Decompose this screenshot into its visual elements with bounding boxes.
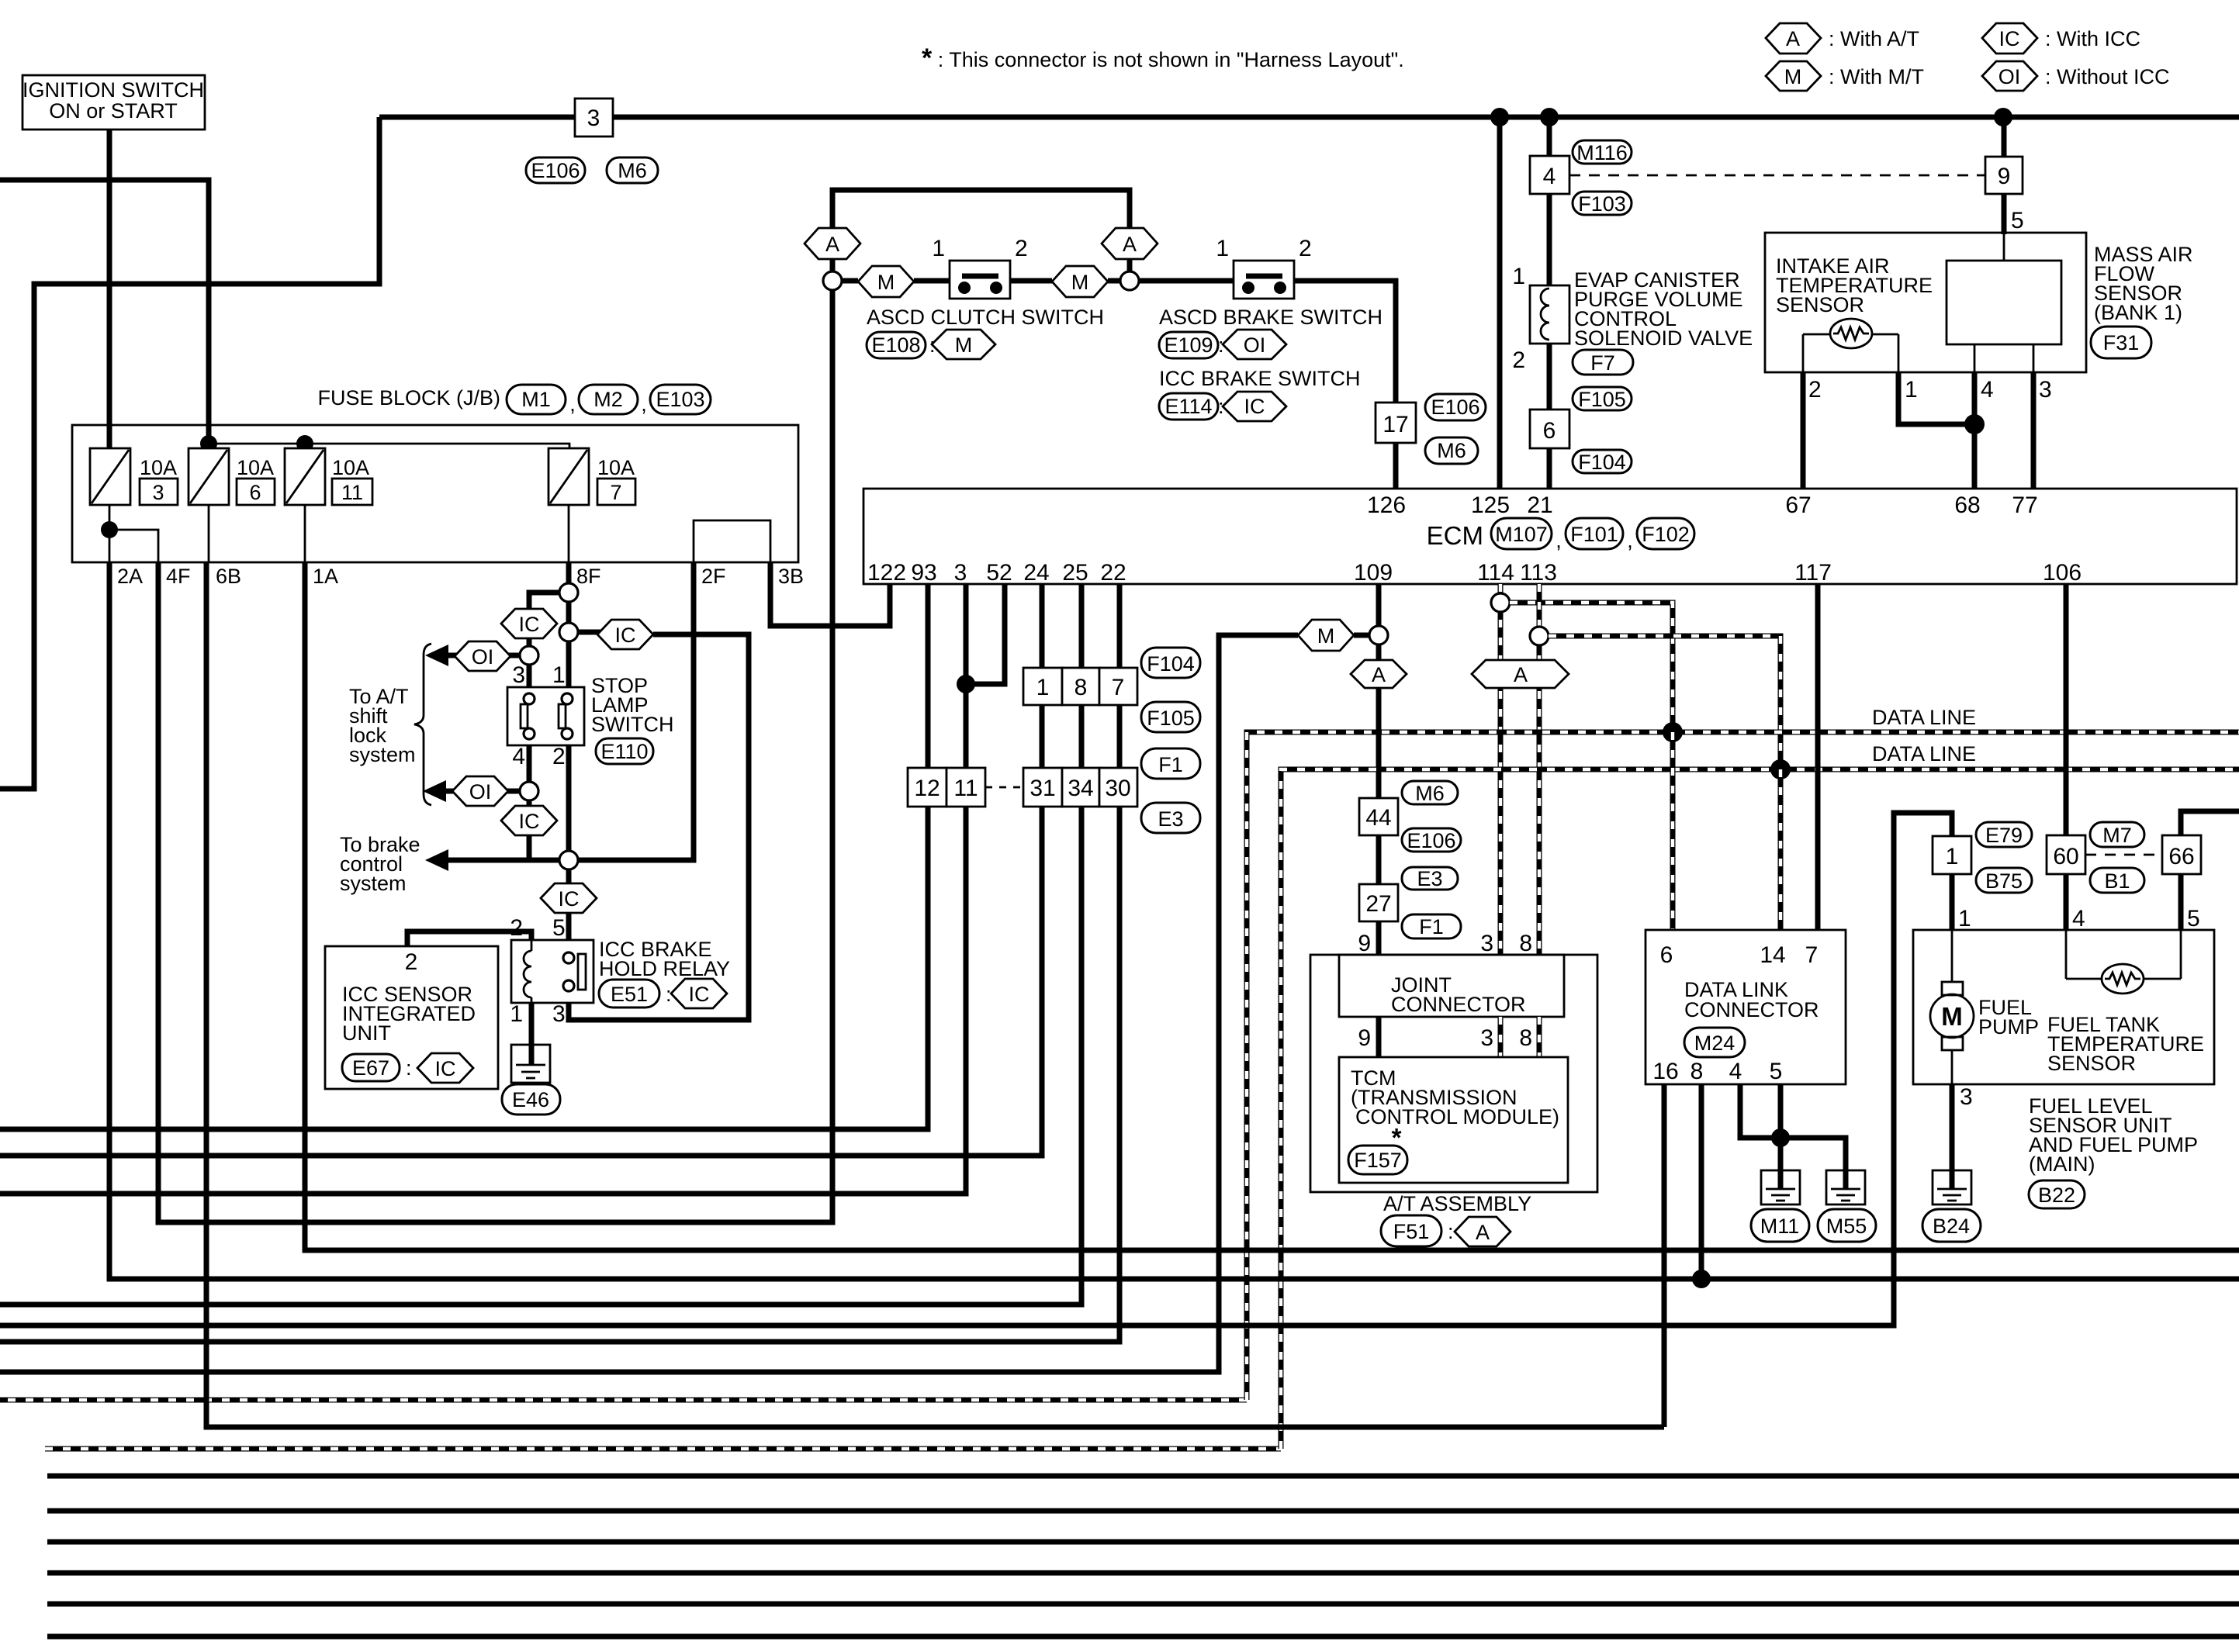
svg-text:IC: IC — [519, 613, 540, 636]
wire JC8 to TCM striped — [1537, 1017, 1542, 1057]
node open circle ASCD right — [1120, 271, 1139, 290]
wire main power corner to left edge — [0, 117, 379, 789]
svg-text:FUSE BLOCK (J/B): FUSE BLOCK (J/B) — [317, 386, 500, 410]
oval E51 — [599, 980, 672, 1007]
svg-text:1: 1 — [1036, 675, 1050, 700]
svg-text:2: 2 — [552, 744, 566, 769]
wire ECM3 to left edge — [0, 584, 966, 1194]
node open circle pin2 — [559, 851, 578, 869]
oval E3 (109) — [1402, 867, 1458, 890]
wire 113 data spur — [1549, 636, 1780, 769]
svg-text:122: 122 — [867, 560, 906, 586]
svg-text:IC: IC — [1244, 395, 1265, 418]
wire circle down through IC — [527, 800, 532, 860]
svg-text:IGNITION SWITCH: IGNITION SWITCH — [22, 78, 204, 102]
hexagon A (109) — [1351, 660, 1407, 688]
label INTAKE AIR TEMPERATURE SENSOR — [1776, 254, 1933, 316]
oval M11 — [1751, 1209, 1809, 1242]
wire 4F branch — [109, 530, 158, 562]
svg-text:4: 4 — [512, 744, 525, 769]
svg-text:67: 67 — [1785, 492, 1811, 518]
wire stop lamp pin4 down — [527, 745, 532, 782]
svg-text:A: A — [1372, 663, 1386, 686]
arrow to A/T shift lock 1 — [425, 645, 520, 666]
legend M hexagon — [1766, 61, 1924, 91]
wire fuse11 to 1A — [304, 505, 306, 562]
svg-text:8: 8 — [1519, 931, 1532, 956]
svg-text:4F: 4F — [166, 565, 191, 588]
svg-text:F101: F101 — [1570, 523, 1618, 546]
wire clutch switch to M hex — [1010, 278, 1052, 284]
svg-text:3: 3 — [152, 481, 164, 504]
svg-text:3: 3 — [1960, 1084, 1973, 1110]
svg-text:3: 3 — [954, 560, 967, 586]
svg-text:SENSOR: SENSOR — [2047, 1052, 2136, 1075]
svg-text:60: 60 — [2053, 844, 2078, 869]
svg-text:93: 93 — [911, 560, 936, 586]
oval F1 (109) — [1402, 914, 1461, 938]
fuse block internal bus — [209, 444, 569, 448]
wire fuse3 to 2A/4F — [109, 505, 111, 562]
bottom bus line 3 — [47, 1540, 2239, 1545]
oval F105 (row) — [1141, 702, 1200, 732]
svg-text:: With ICC: : With ICC — [2045, 27, 2140, 50]
fuel tank temperature sensor thermistor — [2066, 930, 2181, 994]
svg-text:M6: M6 — [618, 159, 647, 182]
ignition switch box — [22, 75, 205, 130]
svg-text:113: 113 — [1520, 560, 1557, 586]
IAT sensor thermistor — [1803, 319, 1898, 372]
wire A/T bypass jumper — [832, 190, 1130, 271]
oval B1 — [2090, 868, 2144, 893]
hexagon OI (E109) — [1223, 330, 1286, 359]
wire 4F to ASCD branch riser — [158, 290, 832, 1222]
svg-text:IC: IC — [519, 810, 540, 833]
svg-text:E3: E3 — [1417, 867, 1442, 890]
wire dashed 4 to 9 — [1569, 175, 1985, 177]
svg-text:CONNECTOR: CONNECTOR — [1684, 998, 1819, 1021]
node open circle 114 — [1491, 593, 1510, 612]
hexagon OI (top) — [455, 641, 510, 671]
wire DL1 to DLC6 striped — [1670, 732, 1676, 930]
oval M55 — [1818, 1209, 1876, 1242]
svg-text:109: 109 — [1354, 560, 1393, 586]
oval E108 — [867, 332, 936, 358]
wire ECM 21 / EVAP chain — [1547, 117, 1552, 489]
svg-text:M107: M107 — [1495, 523, 1548, 546]
hexagon IC (left bottom) — [501, 806, 557, 835]
connector row 12-11 — [908, 768, 985, 807]
connector row 31-34-30 — [1023, 768, 1137, 807]
wire to M55 ground — [1780, 1138, 1846, 1170]
svg-text::: : — [406, 1056, 412, 1080]
svg-text:(BANK 1): (BANK 1) — [2094, 301, 2182, 324]
data link connector box — [1646, 930, 1846, 1084]
hexagon IC (E114) — [1223, 392, 1286, 421]
svg-text:10A: 10A — [332, 456, 369, 479]
svg-text:(MAIN): (MAIN) — [2029, 1153, 2095, 1176]
svg-text:1A: 1A — [313, 565, 338, 588]
oval F7 — [1573, 350, 1633, 375]
svg-text:21: 21 — [1527, 492, 1552, 518]
wire ECM114 striped — [1498, 584, 1504, 955]
svg-text:66: 66 — [2168, 844, 2194, 869]
svg-text:6: 6 — [1543, 418, 1556, 444]
node junction main-21 — [1540, 108, 1559, 126]
connector 3 (E106/M6) — [575, 98, 613, 137]
hexagon M (E108) — [932, 330, 995, 359]
brace shift lock — [414, 644, 431, 805]
svg-text::: : — [1448, 1220, 1454, 1243]
svg-text:A: A — [1476, 1221, 1490, 1244]
node DLC4-5 — [1771, 1128, 1790, 1147]
svg-text:3: 3 — [587, 105, 600, 131]
connector 1 (E79/B75) — [1933, 836, 1971, 874]
wire DATA LINE 2 — [45, 769, 2239, 1449]
oval E67 — [342, 1054, 412, 1081]
wire fuse7 to 8F — [568, 505, 570, 562]
oval M7 — [2090, 822, 2144, 847]
svg-text:30: 30 — [1105, 776, 1130, 801]
wire M hex to clutch switch — [914, 278, 950, 284]
svg-text:5: 5 — [2187, 906, 2200, 931]
wire brake switch to ECM 126 — [1294, 281, 1396, 489]
legend A hexagon — [1766, 23, 1919, 54]
svg-text:2A: 2A — [117, 565, 143, 588]
ICC sensor integrated unit box — [325, 946, 498, 1089]
oval E114 — [1159, 393, 1224, 420]
svg-text:5: 5 — [2011, 208, 2024, 233]
svg-text:,: , — [1556, 529, 1562, 552]
svg-text:E108: E108 — [871, 334, 920, 357]
oval E79 — [1976, 822, 2032, 847]
label FUEL PUMP — [1978, 996, 2039, 1039]
svg-text:2: 2 — [1299, 236, 1312, 261]
wire DLC4 elbow — [1740, 1084, 1780, 1138]
bottom bus line 6 — [47, 1634, 2239, 1640]
svg-text:IC: IC — [1999, 27, 2020, 50]
node data line 2 junction — [1770, 759, 1791, 779]
svg-text:9: 9 — [1998, 164, 2011, 189]
wire branch to shift lock left — [529, 593, 559, 646]
oval B22 — [2029, 1180, 2085, 1208]
svg-text:F104: F104 — [1578, 451, 1626, 474]
svg-text:1: 1 — [1946, 844, 1959, 869]
svg-text:SWITCH: SWITCH — [591, 713, 673, 736]
svg-text:F1: F1 — [1419, 915, 1444, 938]
wire relay pin1 to ground — [529, 1003, 535, 1045]
svg-text:F157: F157 — [1354, 1149, 1402, 1172]
svg-text:M: M — [1317, 624, 1335, 648]
oval F1 (row) — [1141, 748, 1200, 779]
oval E46 — [502, 1084, 560, 1115]
node DLC8-2A — [1692, 1270, 1711, 1288]
wire fuel pin3 to ground — [1950, 1084, 1955, 1170]
label STOP LAMP SWITCH — [591, 674, 673, 736]
svg-text:4: 4 — [2072, 906, 2085, 931]
fuel level sensor unit box — [1913, 930, 2214, 1084]
svg-text:E110: E110 — [600, 740, 648, 763]
svg-text:A: A — [825, 233, 839, 256]
connector notch 2F/3B — [694, 520, 770, 562]
svg-text:126: 126 — [1367, 492, 1406, 518]
ground B24 — [1933, 1170, 1971, 1204]
svg-text:52: 52 — [986, 560, 1012, 586]
bottom bus line 1 — [47, 1474, 2239, 1479]
svg-text:12: 12 — [914, 776, 940, 801]
svg-text:E109: E109 — [1164, 334, 1213, 357]
svg-text:PUMP: PUMP — [1978, 1015, 2039, 1039]
svg-text:IC: IC — [615, 624, 636, 647]
svg-text:125: 125 — [1471, 492, 1510, 518]
svg-text:CONNECTOR: CONNECTOR — [1391, 993, 1526, 1016]
wire MAF pin4 stub — [1974, 344, 1976, 372]
svg-text:7: 7 — [610, 481, 621, 504]
wire ECM93 to left edge — [0, 584, 928, 1129]
oval F104 (row) — [1141, 648, 1200, 678]
fuse block box — [72, 425, 798, 562]
svg-text:10A: 10A — [597, 456, 635, 479]
svg-text:2: 2 — [405, 949, 418, 975]
svg-text:M: M — [1784, 65, 1802, 88]
svg-text:M2: M2 — [593, 388, 623, 411]
wire ECM113 striped — [1537, 584, 1542, 955]
svg-text:system: system — [340, 872, 407, 895]
svg-text:25: 25 — [1062, 560, 1088, 586]
wire ECM25 to left edge — [0, 584, 1081, 1305]
svg-text:24: 24 — [1023, 560, 1049, 586]
svg-text:16: 16 — [1652, 1059, 1678, 1084]
oval M6 — [607, 157, 658, 183]
wire M hex to AT route — [0, 635, 1298, 1372]
node open circle 8F-b — [559, 623, 578, 641]
MAF sensor box — [1765, 233, 2086, 372]
svg-text:ECM: ECM — [1427, 521, 1483, 550]
svg-text:1: 1 — [510, 1001, 523, 1027]
wire MAF4 to ECM68 — [1972, 372, 1978, 489]
oval F51 — [1381, 1215, 1454, 1246]
oval E3 (row) — [1141, 803, 1200, 833]
node junction main-MAF — [1994, 108, 2012, 126]
oval B75 — [1976, 868, 2032, 893]
oval E110 — [596, 738, 653, 764]
svg-text:ON or START: ON or START — [49, 99, 178, 123]
svg-text:M24: M24 — [1694, 1032, 1735, 1055]
svg-text:8: 8 — [1519, 1025, 1532, 1051]
hexagon A (clutch bypass left) — [805, 228, 860, 259]
svg-text:F31: F31 — [2103, 331, 2140, 354]
legend IC hexagon — [1982, 23, 2140, 54]
fuse block label — [317, 385, 711, 416]
ground M55 — [1826, 1170, 1865, 1204]
fuel pump motor — [1930, 930, 1974, 1084]
svg-text:68: 68 — [1954, 492, 1980, 518]
node open circle 109 — [1369, 626, 1388, 645]
wire 9 to MAF — [2002, 117, 2007, 157]
wire ECM109 down — [1376, 584, 1382, 955]
svg-text:11: 11 — [953, 776, 978, 801]
bottom bus line 4 — [47, 1571, 2239, 1576]
riser fuse11 — [304, 444, 306, 448]
svg-text:2F: 2F — [701, 565, 726, 588]
svg-text:8F: 8F — [576, 565, 601, 588]
svg-text:OI: OI — [472, 645, 494, 669]
oval M6 (109) — [1402, 781, 1458, 805]
wire IC right loop — [569, 634, 749, 1020]
svg-text:44: 44 — [1365, 805, 1391, 831]
svg-text:DATA LINE: DATA LINE — [1872, 742, 1976, 766]
oval F103 — [1573, 192, 1632, 216]
hexagon IC (left top) — [501, 609, 557, 638]
svg-text:ICC BRAKE SWITCH: ICC BRAKE SWITCH — [1159, 367, 1361, 390]
MAF inner element — [1947, 261, 2061, 344]
svg-text:4: 4 — [1543, 164, 1556, 189]
svg-text:system: system — [349, 743, 416, 766]
hexagon M (clutch in) — [858, 266, 914, 297]
hexagon OI (bottom) — [452, 776, 508, 806]
node 52-3 — [957, 675, 975, 693]
svg-text:7: 7 — [1112, 675, 1125, 700]
hexagon IC (relay) — [541, 883, 597, 913]
oval F31 — [2091, 327, 2151, 358]
oval F105 — [1573, 387, 1632, 411]
node junction main-125 — [1490, 108, 1509, 126]
ASCD clutch switch — [932, 236, 1027, 299]
svg-text:ASCD CLUTCH SWITCH: ASCD CLUTCH SWITCH — [867, 306, 1104, 329]
hexagon A (F51) — [1455, 1217, 1511, 1246]
svg-text:F51: F51 — [1393, 1220, 1430, 1243]
label ICC BRAKE HOLD RELAY — [599, 938, 730, 980]
svg-text:SENSOR: SENSOR — [1776, 293, 1864, 316]
svg-text:22: 22 — [1100, 560, 1126, 586]
svg-text:4: 4 — [1729, 1059, 1742, 1084]
wire dashed 60 to 66 — [2085, 854, 2162, 856]
connector 6 (F105/F104) — [1530, 410, 1569, 448]
svg-text:F7: F7 — [1590, 351, 1615, 375]
node open circle 113 — [1530, 627, 1549, 645]
svg-text:A: A — [1123, 233, 1137, 256]
wire ECM 125 — [1497, 117, 1503, 489]
svg-text:5: 5 — [552, 915, 566, 941]
node fuse3-4F — [101, 521, 118, 538]
svg-text:2: 2 — [1015, 236, 1028, 261]
svg-text:M116: M116 — [1576, 141, 1628, 164]
svg-text:E46: E46 — [512, 1088, 549, 1111]
svg-text:DATA LINE: DATA LINE — [1872, 706, 1976, 729]
svg-text:27: 27 — [1365, 891, 1391, 917]
svg-text:6: 6 — [1660, 942, 1673, 968]
svg-text:17: 17 — [1383, 412, 1408, 437]
svg-text:F105: F105 — [1578, 388, 1626, 411]
wire dashed 11-31 — [985, 786, 1023, 789]
wire main power line — [379, 115, 2239, 120]
wire 2A bus — [109, 562, 2239, 1279]
hexagon IC (E51) — [671, 979, 727, 1008]
svg-text:3: 3 — [512, 662, 525, 688]
svg-text:3: 3 — [552, 1001, 566, 1027]
oval E106 (109) — [1402, 828, 1461, 852]
bottom bus line 2 — [47, 1509, 2239, 1514]
ICC brake hold relay — [510, 915, 593, 1027]
wire DATA LINE 1 — [0, 732, 2239, 1400]
svg-text:HOLD RELAY: HOLD RELAY — [599, 957, 730, 980]
svg-text:,: , — [569, 392, 576, 416]
connector 44 — [1359, 798, 1398, 835]
svg-text:1: 1 — [1958, 906, 1971, 931]
svg-text:77: 77 — [2012, 492, 2037, 518]
connector 4 (M116/F103) — [1530, 156, 1569, 194]
svg-text:B1: B1 — [2104, 869, 2130, 893]
fuse 11 10A — [285, 448, 372, 505]
oval F104 — [1573, 450, 1632, 474]
svg-text:M: M — [955, 334, 973, 357]
svg-text:E106: E106 — [1407, 829, 1455, 852]
svg-text:34: 34 — [1068, 776, 1093, 801]
svg-text:E3: E3 — [1158, 807, 1183, 831]
wire circle to stop lamp pin3 — [527, 665, 532, 687]
svg-text:OI: OI — [1998, 65, 2021, 88]
svg-text:F103: F103 — [1578, 192, 1626, 216]
svg-text:,: , — [1627, 529, 1633, 552]
label FUEL TANK TEMPERATURE SENSOR — [2047, 1013, 2204, 1075]
hexagon A (113/114 wide) — [1472, 660, 1569, 688]
svg-text:E106: E106 — [1431, 396, 1479, 419]
connector 66 — [2162, 835, 2201, 874]
node data line 1 junction — [1663, 722, 1683, 742]
A/T assembly box — [1310, 955, 1597, 1192]
svg-text:6: 6 — [249, 481, 261, 504]
connector 9 (MAF) — [1985, 157, 2023, 194]
wire 1A bus — [305, 562, 2239, 1250]
wire MAF1 join 4 — [1898, 372, 1974, 424]
legend OI hexagon — [1982, 61, 2170, 91]
ground E46 — [511, 1045, 550, 1083]
svg-text:CONTROL MODULE): CONTROL MODULE) — [1355, 1105, 1559, 1128]
ground M11 — [1761, 1170, 1800, 1204]
label MASS AIR FLOW SENSOR — [2094, 243, 2193, 324]
svg-text:14: 14 — [1760, 942, 1785, 968]
hexagon M (109) — [1298, 620, 1354, 651]
svg-text:117: 117 — [1794, 560, 1832, 586]
wire 9 into inner box — [2003, 233, 2005, 261]
ECM box — [863, 489, 2237, 584]
node bus-fuse6 — [200, 435, 217, 452]
svg-text:3: 3 — [1480, 1025, 1493, 1051]
label ECM with ovals — [1427, 518, 1694, 552]
stop lamp switch — [507, 662, 584, 769]
oval E106 — [526, 157, 585, 183]
svg-text:M: M — [877, 271, 895, 294]
oval F157 — [1348, 1146, 1407, 1174]
svg-text:B24: B24 — [1933, 1215, 1970, 1238]
svg-text:M7: M7 — [2102, 824, 2132, 847]
svg-text:10A: 10A — [237, 456, 274, 479]
svg-text:1: 1 — [932, 236, 945, 261]
svg-text:E79: E79 — [1985, 824, 2023, 847]
bottom bus line 5 — [47, 1602, 2239, 1607]
svg-text:M6: M6 — [1437, 439, 1466, 462]
svg-text:IC: IC — [689, 983, 710, 1006]
svg-text:M: M — [1941, 1002, 1963, 1031]
svg-text:M55: M55 — [1826, 1215, 1867, 1238]
wire IC to relay pin5 — [566, 913, 572, 952]
wire M hex to circle — [1108, 278, 1120, 284]
node open circle 8F-a — [559, 583, 578, 602]
svg-text:F1: F1 — [1158, 753, 1183, 776]
svg-text:* : This connector is not show: * : This connector is not shown in "Harn… — [922, 43, 1404, 73]
wire 66 feed from right — [2181, 811, 2239, 835]
svg-text:8: 8 — [1075, 675, 1088, 700]
